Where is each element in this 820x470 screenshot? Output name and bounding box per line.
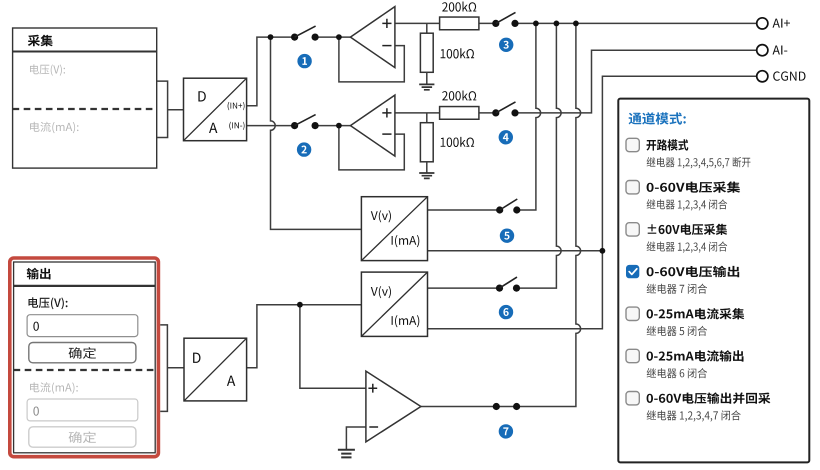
bracket from 采集 box to DAC U1 [157, 81, 184, 137]
wire vertical bus 2: AI+ line down to switch K6 (hops over K4 and I(mA) rows) [517, 23, 562, 288]
wire node B down to op-amp U9 + input [300, 305, 366, 389]
checkbox mode 2 [626, 181, 639, 194]
checkbox mode 4 (checked) [626, 265, 639, 278]
dashed divider in 采集 box [13, 108, 157, 110]
label 100kΩ (R4) [441, 137, 475, 147]
input field current value 0 (disabled) [27, 399, 138, 421]
sublabel mode 2: 继电器 1,2,3,4 闭合 [647, 199, 728, 210]
panel title 通道模式: [629, 112, 686, 124]
divider under 输出 title [14, 285, 156, 287]
switch K6 (open) [496, 277, 520, 292]
label 输出 [27, 268, 51, 280]
checkbox mode 7 [626, 392, 639, 405]
checkbox mode 3 [626, 223, 639, 236]
checkbox mode 5 [626, 307, 639, 320]
junction AI+ / bus2 [554, 21, 560, 27]
sublabel mode 7: 继电器 1,2,3,4,7 闭合 [647, 410, 741, 421]
relay badge 3 [499, 38, 513, 52]
label 电压(V): [29, 297, 68, 309]
wire V/I box U7 V(v) output to switch K6 [428, 287, 500, 289]
wire stub to resistor R4 top [426, 113, 428, 123]
op-amp U9 [366, 371, 421, 442]
switch K5 (open) [496, 199, 520, 214]
wire feedback loop of op-amp U2 [339, 37, 404, 82]
switch K2 (open) [291, 115, 319, 130]
resistor R2 100k [420, 33, 433, 72]
terminal AI- [757, 45, 768, 56]
wire op-amp U2 + input to resistor R1 [395, 22, 440, 24]
resistor R3 200k [440, 107, 479, 120]
label AI+ [773, 19, 791, 28]
wire vertical bus 1: AI+ line down to switch K5 (hop over K4 row) [517, 23, 541, 210]
wire node A down to V/I box U6 input (hop over IN- row) [271, 37, 362, 229]
V/I converter U7 [361, 272, 427, 336]
label mode 3: ±60V电压采集 [648, 224, 728, 235]
wire (IN+) output of U1 up to relay 1 row [247, 37, 271, 106]
op-amp U2 [350, 7, 395, 68]
wire stub to resistor R2 top [426, 23, 428, 33]
label mode 5: 0-25mA电流采集 [647, 308, 745, 319]
wire relay-1 row from node to switch K1 [271, 36, 295, 38]
relay badge 2 [297, 142, 311, 156]
ADC U1 (D/A block with IN+ IN- pins) [184, 78, 247, 141]
channel mode panel box [618, 99, 809, 463]
wire feedback loop of op-amp U3 [339, 126, 404, 170]
junction at op-amp U3 input [336, 123, 342, 129]
label 100kΩ (R2) [441, 48, 475, 58]
junction at op-amp U2 input [336, 34, 342, 40]
wire (IN-) output of U1 to switch K2 [247, 125, 295, 127]
wire DAC U8 output up to V/I box U7 input [247, 305, 362, 368]
junction node A (relay1 row) [268, 34, 274, 40]
label mode 2: 0-60V电压采集 [647, 181, 741, 192]
sublabel mode 3: 继电器 1,2,3,4 闭合 [647, 241, 728, 252]
ground at op-amp U9 - input [338, 450, 355, 458]
label 电流(mA): (disabled) [30, 382, 78, 393]
relay badge 7 [499, 424, 513, 438]
label 采集 [28, 35, 53, 47]
terminal AI+ [757, 18, 768, 29]
op-amp U3 [350, 95, 395, 156]
relay badge 5 [500, 229, 514, 243]
label AI- [773, 46, 788, 55]
output panel 输出 red highlighted box [10, 258, 159, 457]
label mode 7: 0-60V电压输出并回采 [647, 392, 771, 404]
resistor R4 100k [420, 123, 433, 162]
label mode 1: 开路模式 [647, 139, 689, 150]
junction AI+ / bus3 [573, 21, 579, 27]
dashed divider in 输出 box [14, 369, 156, 371]
switch K3 (open) [492, 12, 518, 27]
relay badge 6 [499, 305, 513, 319]
label 200kΩ (R1) [442, 2, 476, 12]
switch K1 (open) [291, 26, 319, 41]
wire vertical bus 3: AI+ line down to switch K7 (three hops) [517, 23, 581, 406]
button 确定 (voltage) [29, 343, 136, 363]
wire switch K2 to op-amp U3 input node [315, 125, 350, 127]
op-amp U3 + marker [382, 108, 391, 117]
checkbox mode 1 [626, 138, 639, 151]
junction I(mA) U6 / CGND bus [600, 248, 606, 254]
op-amp U2 + marker [382, 19, 391, 28]
input field voltage value 0 [27, 315, 138, 337]
label mode 4: 0-60V电压输出 [647, 266, 740, 277]
DAC U8 (D/A block) [184, 338, 247, 401]
ground under R4 [426, 162, 428, 173]
sublabel mode 1: 继电器 1,2,3,4,5,6,7 断开 [647, 157, 751, 168]
label mode 6: 0-25mA电流输出 [647, 350, 744, 361]
op-amp U2 - marker [382, 45, 391, 47]
sublabel mode 6: 继电器 6 闭合 [647, 368, 707, 378]
wire op-amp U3 + input to resistor R3 [395, 112, 440, 114]
wire V/I box U6 V(v) output to switch K5 [428, 209, 500, 211]
V/I converter U6 [361, 197, 427, 261]
terminal CGND [757, 71, 768, 82]
label CGND [773, 71, 805, 80]
relay badge 1 [297, 54, 311, 68]
button 确定 (current, disabled) [29, 427, 136, 447]
label 电压(V): (disabled) [30, 64, 65, 75]
checkbox mode 6 [626, 349, 639, 362]
junction AI+ / bus1 [533, 21, 539, 27]
wire resistor R3 to switch K4 [479, 112, 496, 114]
op-amp U3 - marker [382, 133, 391, 135]
wire V/I box U6 I(mA) output to CGND bus [428, 250, 603, 252]
op-amp U9 + marker [368, 384, 377, 393]
label 电流(mA): (disabled) [30, 122, 78, 133]
wire op-amp U9 - input to ground [346, 427, 366, 450]
wire switch K4 up to AI- terminal [515, 50, 757, 113]
junction node B (DAC U8 output) [297, 302, 303, 308]
wire AI+ line from switch K3 to terminal [515, 22, 757, 24]
sublabel mode 5: 继电器 5 闭合 [647, 326, 707, 336]
wire relay-1 row switch K1 to op-amp U2 input node [315, 36, 350, 38]
wire CGND bus: terminal left then down to I(mA) outputs [428, 76, 757, 328]
wire resistor R1 to switch K3 [479, 22, 496, 24]
label 200kΩ (R3) [442, 91, 476, 101]
sublabel mode 4: 继电器 7 闭合 [647, 284, 707, 294]
op-amp U9 - marker [369, 426, 378, 428]
bracket from 输出 box to DAC U8 [160, 325, 184, 412]
switch K7 (closed) [493, 403, 521, 410]
switch K4 (open) [492, 102, 518, 117]
wire op-amp U9 output to switch K7 [421, 406, 517, 408]
ground under R2 [426, 72, 428, 84]
acquisition panel 采集 box [13, 28, 157, 168]
relay badge 4 [499, 130, 513, 144]
resistor R1 200k [440, 17, 479, 30]
